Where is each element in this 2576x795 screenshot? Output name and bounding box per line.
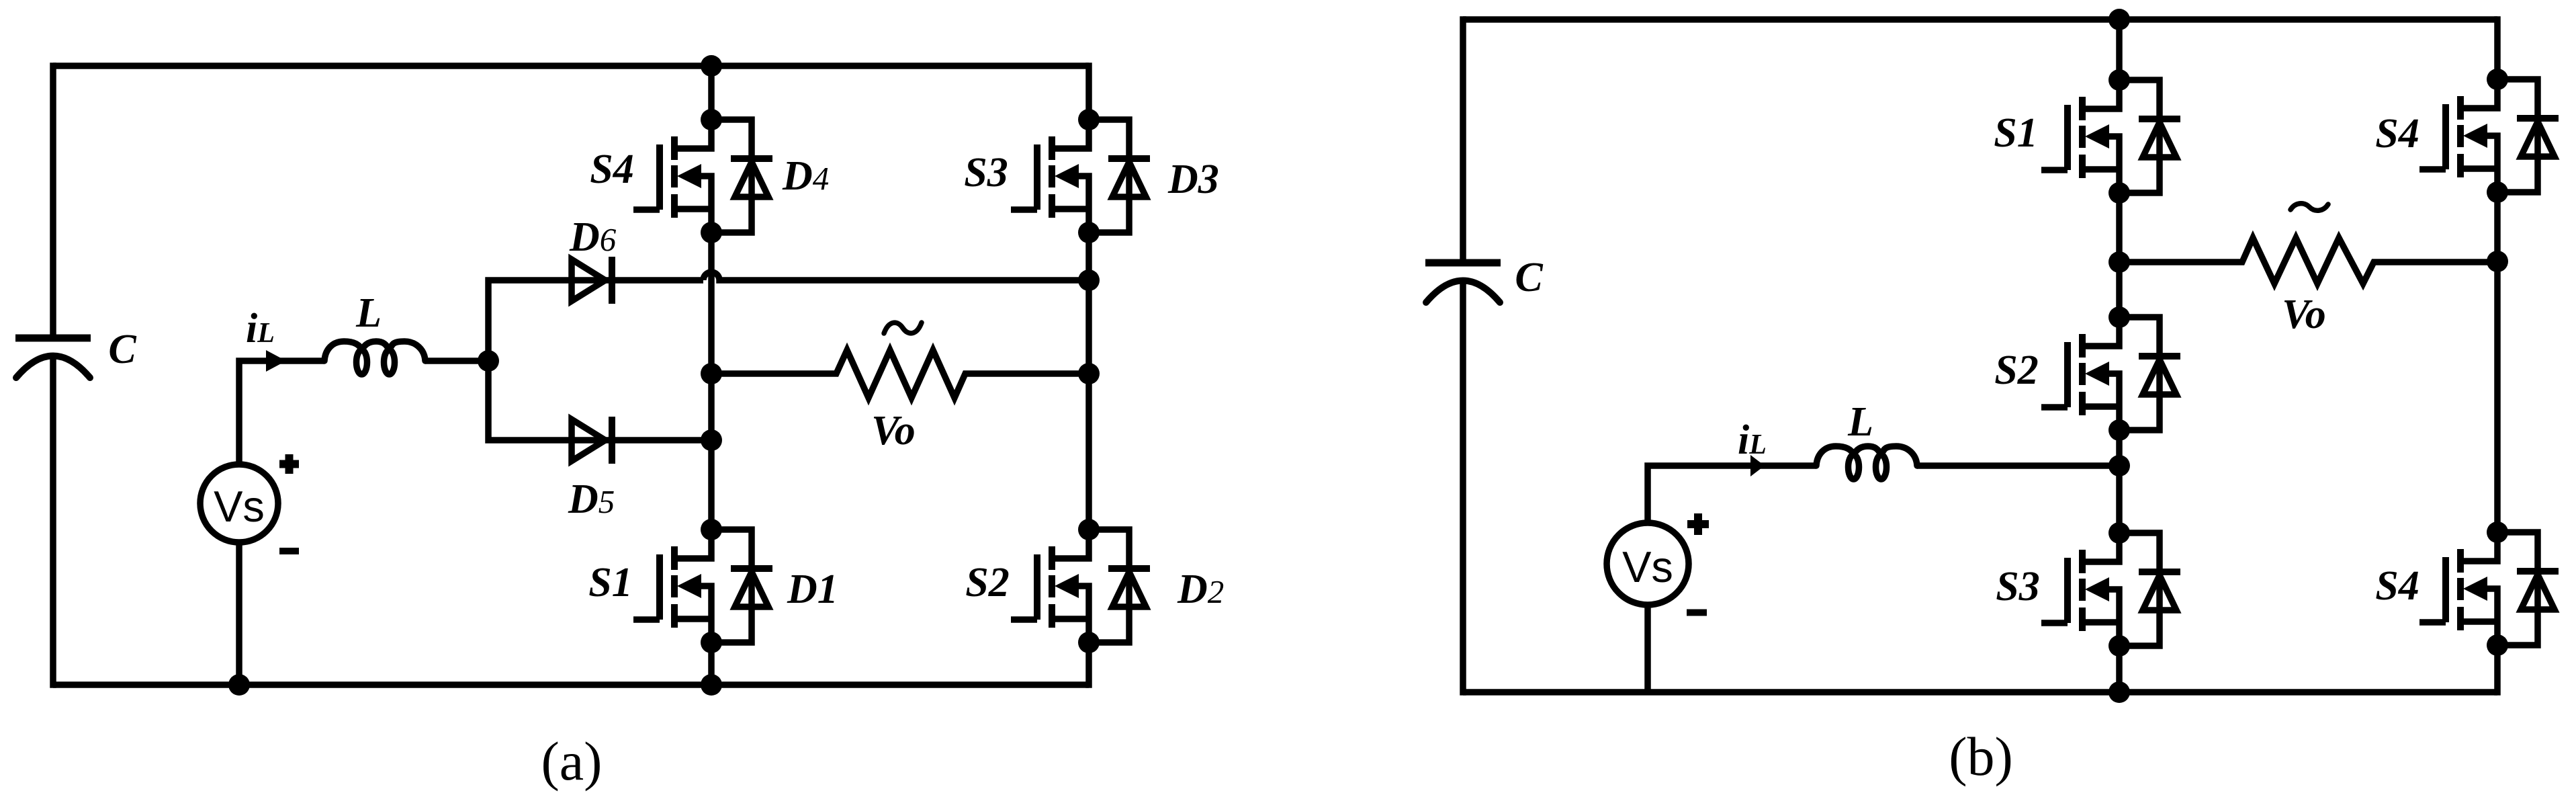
- svg-text:(b): (b): [1949, 726, 2013, 787]
- plus sign of Vs (a): [279, 454, 299, 474]
- voltage source Vs (a): [200, 464, 278, 542]
- transistor S1 (b): [2041, 80, 2119, 193]
- node: resistor right on right leg (b): [2487, 251, 2508, 272]
- wire: junction down to D5 level (a): [488, 361, 711, 440]
- node: resistor left on S4-S1 leg (a): [701, 363, 722, 384]
- wire: D6 line hop over S4 leg, to S3 leg (a): [703, 272, 1089, 280]
- diode body diode of S2 (b) (body diode): [2119, 317, 2180, 430]
- resistor Vo load (a): [711, 350, 1089, 398]
- svg-text:L: L: [355, 290, 382, 336]
- transistor S4 (top, b): [2419, 79, 2497, 192]
- node: resistor right on S3-S2 leg (a): [1078, 363, 1100, 384]
- current arrow iL (a): [266, 350, 286, 372]
- diode body diode of S4 (top, b) (body diode): [2497, 79, 2559, 192]
- wire: top bus corner down to S3 drain (a): [1085, 62, 1092, 120]
- wire: resistor node to S1 drain (a): [708, 374, 715, 530]
- wire: top bus to S4 drain (a): [708, 66, 715, 120]
- wire: left capacitor leg lower (a): [50, 356, 56, 688]
- svg-text:D3: D3: [1167, 157, 1219, 202]
- minus sign of Vs (a): [279, 548, 299, 554]
- transistor S3: [1011, 120, 1089, 233]
- wire: D6 node to resistor right node (a): [1085, 280, 1092, 374]
- svg-text:D6: D6: [569, 214, 617, 260]
- svg-text:D1: D1: [787, 567, 838, 612]
- transistor S1: [633, 530, 711, 642]
- svg-text:S4: S4: [590, 147, 633, 192]
- svg-text:C: C: [1515, 255, 1543, 300]
- svg-text:S3: S3: [964, 150, 1008, 196]
- wire: S2 source to inductor tap (b): [2116, 430, 2123, 466]
- node: inductor junction (a): [478, 350, 499, 372]
- wire: resistor right node down to S4(bottom) drain (b): [2494, 261, 2501, 532]
- wire: inductor to junction (a): [425, 358, 488, 364]
- svg-text:S3: S3: [1996, 564, 2039, 610]
- wire: Vs to inductor corner (a): [239, 361, 324, 464]
- svg-text:D2: D2: [1177, 567, 1224, 612]
- wire: S3 source to D6 node (a): [1085, 233, 1092, 280]
- node: S1 on bottom bus (a): [701, 674, 722, 696]
- wire: inductor tap to S3 drain (b): [2116, 466, 2123, 533]
- diode D2 (body diode): [1089, 530, 1150, 642]
- node: inductor tap on middle leg (b): [2108, 455, 2130, 476]
- tilde (AC) over Vo (a): [884, 323, 922, 333]
- diode body diode of S3 (b) (body diode): [2119, 533, 2180, 646]
- svg-text:S4: S4: [2375, 111, 2419, 157]
- capacitor C (a): [15, 338, 91, 378]
- wire: top bus corner to S4(top) drain (b): [2494, 16, 2501, 79]
- diode D6: [572, 257, 612, 304]
- svg-text:D4: D4: [782, 153, 829, 199]
- inductor L (a): [324, 341, 425, 374]
- wire: Vs to inductor corner (b): [1648, 466, 1816, 523]
- node: D5 line on S4-S1 leg (a): [701, 429, 722, 451]
- svg-text:L: L: [1847, 399, 1873, 445]
- wire: S1 source to resistor tap (b): [2116, 193, 2123, 262]
- node: Vs on bottom bus (a): [228, 674, 250, 696]
- svg-text:S4: S4: [2375, 563, 2419, 609]
- wire: left capacitor leg upper (b): [1460, 16, 1466, 263]
- wire: S4 source down crossing D6 line to resistor node (a): [708, 233, 715, 374]
- svg-text:Vo: Vo: [871, 408, 915, 454]
- wire: top bus (b): [1463, 16, 2497, 23]
- svg-text:Vs: Vs: [214, 482, 265, 531]
- svg-text:S1: S1: [1994, 110, 2037, 156]
- capacitor C (b): [1425, 263, 1501, 302]
- svg-text:S1: S1: [588, 560, 632, 605]
- node: resistor tap on middle leg (b): [2108, 251, 2130, 273]
- wire: resistor tap to S2 drain (b): [2116, 262, 2123, 317]
- svg-text:S2: S2: [1994, 347, 2038, 393]
- node: S4 leg on top bus (a): [701, 55, 722, 77]
- wire: S1 source to bottom bus (a): [708, 642, 715, 685]
- wire: bottom bus (b): [1463, 689, 2497, 696]
- diode D1 (body diode): [711, 530, 772, 642]
- wire: bottom bus (a): [53, 681, 1089, 688]
- node: D6 line on S3 leg (a): [1078, 269, 1100, 291]
- transistor S4 (bottom, b): [2419, 532, 2497, 645]
- node: middle leg on top bus (b): [2108, 9, 2130, 30]
- diode D4 (body diode): [711, 120, 772, 233]
- wire: left capacitor leg lower (b): [1460, 281, 1466, 696]
- svg-text:D5: D5: [568, 476, 615, 522]
- resistor Vo load (b): [2119, 238, 2497, 284]
- wire: left capacitor leg upper (a): [50, 62, 56, 338]
- wire: junction up to D6 level (a): [488, 280, 703, 361]
- plus sign of Vs (b): [1687, 513, 1709, 535]
- diode body diode of S4 (bottom, b) (body diode): [2497, 532, 2559, 645]
- svg-text:Vo: Vo: [2282, 292, 2325, 337]
- tilde (AC) over Vo (b): [2291, 204, 2328, 210]
- svg-text:(a): (a): [541, 730, 602, 792]
- wire: inductor to middle leg (b): [1917, 462, 2119, 469]
- wire: Vs bottom lead (b): [1644, 605, 1651, 692]
- svg-text:Vs: Vs: [1622, 542, 1673, 591]
- minus sign of Vs (b): [1687, 610, 1707, 616]
- transistor S2: [1011, 530, 1089, 642]
- diode body diode of S1 (b) (body diode): [2119, 80, 2180, 193]
- transistor S4: [633, 120, 711, 233]
- inductor L (b): [1816, 446, 1917, 479]
- diode D3 (body diode): [1089, 120, 1150, 233]
- svg-text:S2: S2: [965, 560, 1009, 605]
- wire: resistor node to S2 drain (a): [1085, 374, 1092, 530]
- diode D5: [572, 417, 612, 464]
- voltage source Vs (b): [1607, 523, 1689, 605]
- current arrow iL (b): [1750, 455, 1765, 476]
- transistor S2 (b): [2041, 317, 2119, 430]
- node: middle leg on bottom bus (b): [2108, 681, 2130, 703]
- wire: S4(top) source to resistor right node (b): [2494, 192, 2501, 261]
- wire: Vs bottom lead (a): [236, 542, 242, 685]
- wire: S3 source to bottom bus (b): [2116, 646, 2123, 692]
- wire: top bus (a): [53, 62, 1089, 69]
- wire: S4(bottom) source to bottom bus corner (b): [2494, 645, 2501, 696]
- svg-text:C: C: [108, 327, 136, 372]
- wire: top bus to S1 drain (b): [2116, 19, 2123, 80]
- wire: S2 source to bottom bus corner (a): [1085, 642, 1092, 688]
- transistor S3 (b): [2041, 533, 2119, 646]
